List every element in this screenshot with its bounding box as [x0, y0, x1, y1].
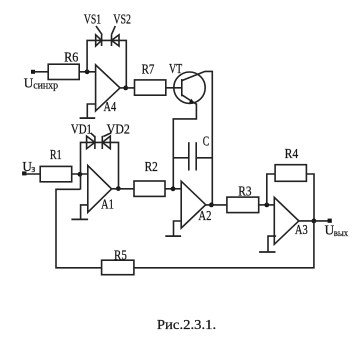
wire: VT collector down to A2 output: [205, 71, 212, 205]
svg-text:A4: A4: [104, 99, 117, 114]
wire: R4 down to A3 output: [306, 174, 314, 221]
node: A3 output / R4 / R5 junction: [312, 219, 317, 224]
ground: A2 common: [165, 221, 181, 236]
transistor VT: [169, 61, 205, 104]
svg-text:VT: VT: [169, 61, 182, 76]
node: R1 / A1 input / VD feedback / R5 junction: [78, 172, 83, 177]
svg-text:синхр: синхр: [33, 80, 58, 91]
svg-text:A3: A3: [295, 222, 308, 237]
svg-text:R2: R2: [145, 159, 158, 174]
svg-text:Рис.2.3.1.: Рис.2.3.1.: [157, 318, 216, 333]
resistor R2: [134, 159, 165, 196]
resistor R1: [40, 147, 71, 182]
ground: A3 common: [259, 236, 276, 252]
node: R2 / A2 input / C junction: [171, 186, 176, 191]
terminal Uз: [22, 159, 35, 175]
svg-text:вых: вых: [334, 228, 349, 239]
capacitor C: [173, 133, 212, 170]
wire: R6 to A4 input: [79, 71, 95, 73]
wire: Uз terminal to R1: [24, 173, 40, 175]
wire: R1 to A1 input: [72, 173, 88, 175]
svg-text:C: C: [203, 133, 210, 148]
node: A1 output junction: [116, 186, 121, 191]
wire: A2 output to R3: [206, 204, 227, 206]
resistor R3: [227, 184, 259, 213]
wire: R7 to VT base: [166, 87, 182, 89]
wire: Uсинхр terminal to R6: [33, 71, 48, 73]
resistor R7: [135, 61, 166, 95]
op-amp A4: [96, 65, 120, 114]
ground: A1 common: [71, 205, 88, 220]
wire: A3 output down and left to R5: [134, 221, 314, 268]
wire: VT emitter down to A2 input: [173, 103, 196, 189]
wire: VD1/VD2 feedback loop around A1: [81, 142, 119, 189]
terminal Uсинхр: [24, 70, 58, 92]
op-amp A2: [181, 181, 211, 228]
resistor R5: [102, 247, 134, 274]
op-amp A1: [88, 166, 114, 213]
wire: A3 input up to R4: [267, 174, 275, 205]
diode VS1: [84, 12, 102, 46]
svg-text:VS1: VS1: [84, 12, 101, 27]
terminal Uвых: [325, 219, 349, 239]
wire: A4 output to R7: [120, 87, 135, 89]
resistor R6: [48, 49, 79, 79]
diode VS2: [111, 12, 131, 46]
ground: A4 common: [80, 104, 97, 118]
svg-text:A1: A1: [101, 197, 114, 212]
svg-text:A2: A2: [198, 208, 211, 223]
wire: A1 output to R2: [112, 188, 134, 190]
node: R6 / A4 input / VS feedback junction: [85, 69, 90, 74]
node: A4 output junction: [123, 86, 128, 91]
svg-text:VD2: VD2: [107, 121, 130, 136]
op-amp A3: [274, 197, 308, 244]
node: A2 output junction: [209, 203, 214, 208]
wire: R3 to A3 input: [259, 204, 275, 206]
svg-text:R4: R4: [285, 146, 299, 161]
diode VD2: [102, 121, 130, 149]
wire: R2 to A2 input: [165, 188, 181, 190]
svg-text:R1: R1: [50, 147, 62, 162]
svg-text:R7: R7: [142, 61, 155, 76]
wire: VS1/VS2 feedback loop around A4: [87, 40, 126, 88]
svg-text:VS2: VS2: [113, 12, 131, 27]
resistor R4: [275, 146, 306, 181]
wire: A3 output to Uвых terminal: [299, 220, 330, 222]
svg-text:R3: R3: [238, 184, 252, 199]
svg-text:R6: R6: [64, 49, 79, 64]
node: R3 / A3 input / R4 junction: [264, 203, 269, 208]
diode VD1: [71, 121, 95, 149]
wire: R5 left up to A1 input node: [56, 189, 102, 267]
svg-text:VD1: VD1: [71, 121, 92, 136]
svg-text:R5: R5: [114, 247, 127, 262]
